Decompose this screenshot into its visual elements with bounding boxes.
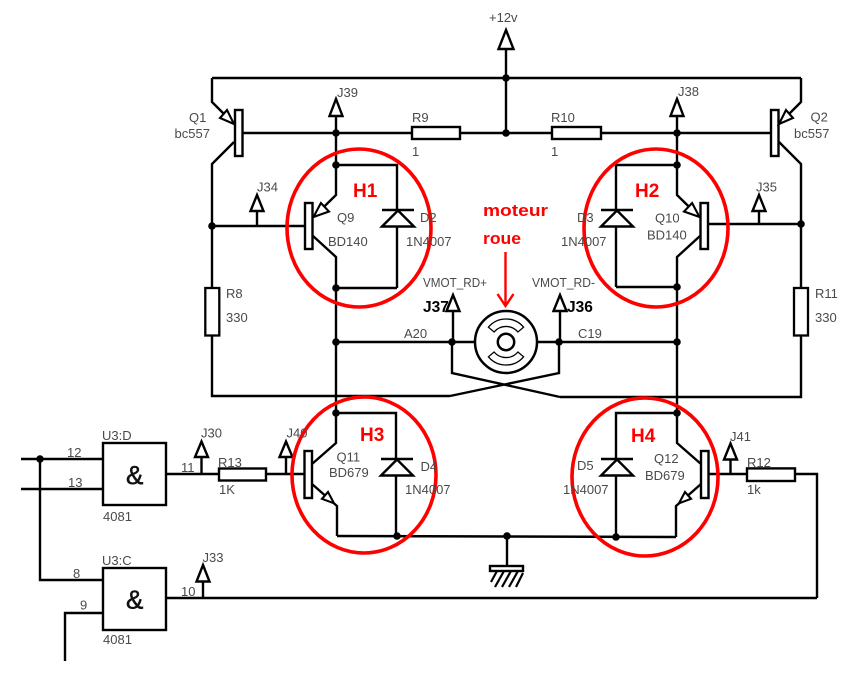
- node H2 bottom junction: [673, 283, 681, 291]
- wire H2 bottom to C19 node to H4 top: [676, 287, 678, 413]
- svg-text:4081: 4081: [103, 632, 132, 647]
- resistor R9: [412, 127, 460, 139]
- svg-text:Q1: Q1: [189, 110, 206, 125]
- transistor Q1 base bar: [235, 110, 243, 156]
- node H4 top junction: [673, 409, 681, 417]
- connector arrow J40: [280, 442, 293, 475]
- svg-text:H1: H1: [353, 181, 378, 202]
- svg-text:R10: R10: [551, 110, 575, 125]
- transistor Q9: [305, 165, 336, 288]
- node +12v / R9 R10 junction: [502, 129, 510, 137]
- wire H2 top: [616, 165, 677, 210]
- gate U3:D: [103, 443, 166, 505]
- node Q9 base / left rail junction: [208, 222, 216, 230]
- connector arrow J41: [724, 444, 737, 475]
- wire U3:C output pin 10 long run: [166, 597, 817, 599]
- svg-text:U3:C: U3:C: [102, 553, 132, 568]
- svg-text:&: &: [126, 585, 143, 615]
- H2 highlight ellipse: [584, 149, 728, 307]
- svg-text:R9: R9: [412, 110, 429, 125]
- svg-text:D4: D4: [421, 459, 438, 474]
- svg-text:Q12: Q12: [654, 451, 679, 466]
- transistor Q10: [677, 165, 708, 287]
- wire U3:D pin 12: [21, 458, 103, 460]
- node J38 junction: [673, 129, 681, 137]
- connector arrow J37: [447, 295, 460, 342]
- svg-text:VMOT_RD+: VMOT_RD+: [423, 275, 487, 290]
- resistor R10: [552, 127, 601, 139]
- svg-text:J38: J38: [678, 84, 699, 99]
- node ground junction: [503, 532, 511, 540]
- wire J39 node down to H1 top: [335, 133, 337, 165]
- resistor R8: [205, 288, 219, 336]
- svg-text:D2: D2: [420, 210, 437, 225]
- wire R13 to Q11 base: [266, 473, 304, 475]
- svg-text:8: 8: [73, 566, 80, 581]
- svg-text:9: 9: [80, 598, 87, 613]
- transistor Q2 emitter arrow: [779, 110, 793, 124]
- svg-text:J41: J41: [730, 429, 751, 444]
- H3 half-bridge cell: [305, 413, 414, 536]
- wire base row Q1 to R9: [242, 132, 412, 134]
- svg-text:moteur: moteur: [483, 201, 548, 220]
- svg-text:H3: H3: [360, 425, 384, 446]
- svg-text:J35: J35: [756, 180, 777, 195]
- wire H1 bottom: [336, 287, 397, 289]
- wire Q12 base to R12: [708, 473, 747, 475]
- wire Q9 base row: [212, 225, 305, 227]
- svg-text:C19: C19: [578, 326, 602, 341]
- diode D5: [601, 459, 633, 537]
- wire U3:D output pin 11 to R13: [166, 473, 219, 475]
- svg-text:1k: 1k: [747, 482, 761, 497]
- svg-text:R13: R13: [218, 455, 242, 470]
- H2 half-bridge cell: [601, 165, 708, 287]
- svg-text:R12: R12: [747, 455, 771, 470]
- connector arrow J30: [195, 442, 208, 475]
- transistor Q2 base bar: [771, 110, 779, 156]
- svg-text:bc557: bc557: [175, 126, 210, 141]
- node Q10 base / right rail junction: [797, 220, 805, 228]
- node motor right terminal: [555, 338, 563, 346]
- wire R10 to Q2 base: [601, 132, 771, 134]
- svg-text:Q9: Q9: [337, 210, 354, 225]
- svg-text:J34: J34: [257, 180, 278, 195]
- svg-text:Q11: Q11: [337, 450, 361, 465]
- node D5 bottom junction: [612, 533, 620, 541]
- H4 highlight ellipse: [572, 398, 718, 556]
- resistor R12: [747, 468, 795, 481]
- motor symbol: [475, 311, 537, 373]
- svg-text:U3:D: U3:D: [102, 428, 132, 443]
- node A20 junction: [332, 338, 340, 346]
- diode D4: [381, 459, 413, 536]
- svg-text:4081: 4081: [103, 509, 132, 524]
- svg-text:J39: J39: [337, 85, 358, 100]
- connector arrow J36: [554, 295, 567, 342]
- svg-text:J30: J30: [201, 426, 222, 441]
- wire motor right terminal to C19: [537, 341, 677, 343]
- svg-text:BD679: BD679: [645, 468, 685, 483]
- svg-text:Q2: Q2: [811, 110, 828, 125]
- wire A20 to motor left terminal: [336, 341, 475, 343]
- svg-text:R8: R8: [226, 286, 243, 301]
- node U3:D pin12 branch junction: [36, 455, 44, 463]
- wire cross diagonal left-to-right motor terminal: [450, 342, 559, 396]
- wire H4 top: [616, 413, 677, 459]
- wire bottom ground rail: [337, 536, 676, 537]
- svg-text:VMOT_RD-: VMOT_RD-: [532, 275, 595, 290]
- svg-text:D5: D5: [577, 458, 594, 473]
- svg-text:J36: J36: [567, 299, 593, 316]
- svg-text:1: 1: [551, 144, 558, 159]
- H3 highlight ellipse: [292, 397, 436, 553]
- wire cross diagonal right-to-left motor terminal: [452, 342, 560, 397]
- svg-text:bc557: bc557: [794, 126, 829, 141]
- wire U3:D pin 13: [21, 488, 103, 490]
- connector arrow J35: [753, 195, 766, 224]
- node motor left terminal: [448, 338, 456, 346]
- svg-text:roue: roue: [483, 229, 521, 248]
- resistor R13: [219, 469, 266, 481]
- wire R9 to R10: [460, 132, 552, 134]
- node C19 junction: [673, 338, 681, 346]
- svg-text:1N4007: 1N4007: [563, 482, 609, 497]
- svg-text:D3: D3: [577, 210, 594, 225]
- wire U3:C pin 9 stub: [65, 613, 103, 661]
- node H1 bottom junction: [332, 284, 340, 292]
- svg-text:H4: H4: [631, 426, 656, 447]
- svg-text:1K: 1K: [219, 482, 235, 497]
- svg-text:10: 10: [181, 584, 195, 599]
- svg-text:BD679: BD679: [329, 465, 369, 480]
- node +12v rail junction: [502, 74, 510, 82]
- wire Q10 base row: [708, 223, 801, 225]
- svg-text:1N4007: 1N4007: [406, 234, 452, 249]
- svg-text:J37: J37: [423, 299, 449, 316]
- wire J38 node down to H2 top: [676, 133, 678, 165]
- ground symbol: [490, 536, 523, 587]
- connector arrow J34: [251, 195, 264, 226]
- svg-text:BD140: BD140: [647, 228, 687, 243]
- gate U3:C: [103, 568, 166, 630]
- svg-text:1: 1: [412, 144, 419, 159]
- connector arrow J39: [330, 99, 343, 133]
- wire Q1 collector: [212, 142, 234, 289]
- red highlight circles: [287, 149, 728, 556]
- svg-text:BD140: BD140: [328, 234, 368, 249]
- svg-text:R11: R11: [815, 286, 838, 301]
- svg-text:1N4007: 1N4007: [405, 482, 451, 497]
- transistor Q11: [305, 413, 338, 536]
- svg-text:1N4007: 1N4007: [561, 234, 607, 249]
- wire top rail +12V: [212, 77, 801, 79]
- H1 highlight ellipse: [287, 149, 431, 307]
- svg-text:J33: J33: [203, 550, 224, 565]
- wire Q2 collector: [779, 142, 801, 289]
- red motor pointer arrow: [498, 252, 514, 306]
- svg-text:11: 11: [181, 460, 195, 475]
- svg-text:&: &: [126, 460, 143, 490]
- wire branch node pin12 down to U3:C pin 8: [40, 459, 103, 580]
- wire H2 bottom: [616, 286, 677, 288]
- wire right rail below R11: [560, 335, 801, 397]
- svg-text:12: 12: [67, 445, 81, 460]
- resistor R11: [794, 288, 808, 336]
- wire R12 to bottom run: [795, 474, 817, 598]
- svg-text:Q10: Q10: [655, 211, 680, 226]
- wire H1 bottom to A20 node to H3 top: [335, 288, 337, 413]
- svg-text:13: 13: [68, 475, 82, 490]
- wire H1 top: [336, 165, 397, 210]
- diode D3: [601, 210, 633, 287]
- transistor Q12: [676, 413, 709, 537]
- wire H3 top: [336, 413, 396, 459]
- node D4 bottom junction: [393, 532, 401, 540]
- svg-text:J40: J40: [287, 426, 308, 441]
- wire Q1 emitter to rail: [212, 78, 234, 124]
- H1 half-bridge cell: [305, 165, 414, 288]
- svg-text:330: 330: [815, 310, 837, 325]
- svg-text:+12v: +12v: [489, 10, 518, 25]
- diode D2: [382, 210, 414, 288]
- svg-text:A20: A20: [404, 326, 427, 341]
- svg-text:H2: H2: [635, 181, 659, 202]
- H4 half-bridge cell: [601, 413, 709, 537]
- wire Q2 emitter to rail: [779, 78, 801, 124]
- node H3 top junction: [332, 409, 340, 417]
- connector arrow J33: [197, 565, 210, 598]
- node H2 top junction: [673, 161, 681, 169]
- transistor Q1 emitter arrow: [220, 110, 234, 124]
- connector arrow J38: [671, 99, 684, 133]
- node H1 top junction: [332, 161, 340, 169]
- node J39 junction: [332, 129, 340, 137]
- svg-text:330: 330: [226, 310, 248, 325]
- power +12v symbol: [499, 30, 514, 133]
- wire left rail below R8: [212, 335, 450, 396]
